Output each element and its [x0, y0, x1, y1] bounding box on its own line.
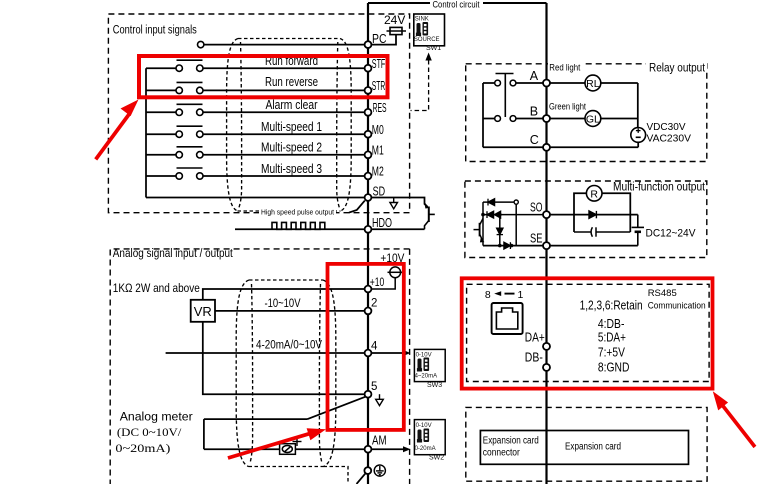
svg-text:SD: SD [373, 184, 386, 198]
transistor Q1: multi-function open collector [474, 219, 484, 242]
wire PC row [204, 44, 365, 46]
svg-text:SO: SO [530, 201, 543, 215]
svg-text:GL: GL [586, 114, 600, 126]
wire: relay left bus [482, 83, 484, 147]
svg-text:5:DA+: 5:DA+ [598, 331, 626, 345]
wire: AM to SW2 arrow [371, 448, 404, 450]
terminal M2 [365, 173, 372, 180]
wire: diagonal from terminal 5 to meter loop [308, 397, 366, 419]
wire: SO to battery [550, 214, 638, 216]
svg-text:RS485: RS485 [648, 288, 677, 299]
wire: GL to right bus [601, 118, 638, 120]
switch SW2 selector box [414, 420, 445, 455]
box: Relay output dashed border [466, 64, 707, 162]
wire: terminal 4 to SW3 arrow [371, 352, 404, 354]
diode D4 (SE row, pointing right) [504, 242, 511, 249]
lamp GL (green light) [585, 111, 601, 127]
wire: ground diagonal [357, 473, 366, 484]
ground: shield arrow symbol near SD [390, 198, 398, 209]
highlight: red box around analog terminals [328, 264, 404, 430]
switch SW1 SINK/SOURCE selector box [414, 14, 445, 46]
svg-text:Alarm clear: Alarm clear [266, 98, 318, 112]
switch: SW1 DIP icon [416, 22, 428, 36]
svg-text:RES: RES [373, 101, 387, 115]
wire: terminal B to GL [550, 118, 585, 120]
wire: HDO to output transistor emitter [371, 228, 424, 230]
shield: analog cable capsule outer [236, 280, 336, 467]
wire: RL to right bus [601, 82, 638, 84]
wire: meter loop left [203, 419, 205, 449]
svg-text:M0: M0 [372, 123, 384, 137]
relay contact A [483, 74, 516, 118]
svg-text:24V: 24V [384, 13, 405, 27]
svg-text:DA+: DA+ [525, 331, 545, 345]
svg-text:Analog signal input / output: Analog signal input / output [113, 246, 233, 260]
wire: contact B to terminal B [516, 118, 543, 120]
wire: terminal 4 row [166, 352, 365, 354]
label Relay output [646, 60, 707, 75]
wire RES row [203, 111, 365, 113]
wire: VR top to +10 [203, 289, 365, 300]
svg-text:DC12~24V: DC12~24V [646, 227, 696, 239]
wire: VR wiper to terminal 2 [215, 310, 365, 312]
terminal 5 [365, 391, 372, 398]
svg-text:-10~10V: -10~10V [265, 296, 302, 310]
switch M2 (Multi-speed 3) [146, 168, 203, 179]
node: left terminal bus line [367, 3, 369, 484]
wire: SO row inside left circuit [483, 214, 543, 216]
terminal SO [543, 211, 550, 218]
wire: relay right bus [637, 83, 639, 128]
svg-text:0~20mA): 0~20mA) [115, 441, 170, 455]
box: Multi-function output dashed border [465, 181, 707, 258]
terminal DA+ [543, 343, 550, 350]
svg-text:AM: AM [372, 434, 387, 448]
wire: snubber frame [574, 193, 630, 232]
wire: contact A to terminal A [516, 82, 543, 84]
label High speed pulse output [259, 207, 336, 217]
switch RES (Alarm clear) [146, 104, 203, 115]
svg-text:4: 4 [371, 341, 378, 353]
svg-text:B: B [530, 104, 538, 118]
svg-text:2: 2 [371, 298, 377, 310]
svg-text:VR: VR [194, 304, 212, 319]
svg-text:VAC230V: VAC230V [647, 134, 692, 145]
capacitor C1 [574, 227, 630, 236]
svg-text:STF: STF [372, 57, 386, 71]
svg-text:Analog meter: Analog meter [120, 409, 193, 423]
svg-text:Control circuit: Control circuit [433, 0, 480, 11]
wire M1 row [203, 154, 365, 156]
svg-text:4-20mA/0~10V: 4-20mA/0~10V [256, 338, 323, 352]
transistor: HDO open collector [425, 203, 435, 229]
switch SW3 selector box [414, 349, 445, 381]
svg-text:Green light: Green light [549, 102, 586, 112]
diode D5 on SO line [589, 211, 596, 218]
relay coil R circle [586, 186, 602, 202]
label: Control circuit [430, 0, 483, 11]
svg-text:(DC 0~10V/: (DC 0~10V/ [117, 425, 182, 439]
wire: meter loop top [204, 418, 308, 420]
svg-text:Expansion card: Expansion card [483, 436, 539, 447]
svg-text:8: 8 [485, 289, 491, 301]
svg-text:HDO: HDO [372, 216, 392, 230]
terminal HDO [365, 226, 372, 233]
potentiometer VR [191, 300, 215, 322]
svg-text:A: A [530, 69, 539, 83]
svg-text:4~20mA: 4~20mA [415, 374, 438, 380]
wire STR row [203, 89, 365, 91]
highlight: red arrow pointing to RS485 box [713, 391, 757, 448]
svg-text:0-10V: 0-10V [416, 352, 432, 358]
svg-text:SINK: SINK [415, 17, 429, 23]
svg-text:+10: +10 [370, 277, 385, 289]
label 8 to 1 pin order [485, 289, 524, 301]
label Expansion card connector [483, 436, 539, 459]
svg-text:STR: STR [372, 79, 386, 93]
svg-text:R: R [590, 188, 598, 200]
svg-text:Communication: Communication [648, 300, 706, 311]
svg-text:0-10V: 0-10V [416, 423, 432, 429]
terminal STR [365, 87, 372, 94]
wire: top control-circuit boundary line [368, 2, 547, 4]
label Red light [548, 61, 582, 73]
svg-text:DB-: DB- [525, 351, 543, 365]
wire HDO row [235, 228, 365, 230]
svg-text:0-20mA: 0-20mA [415, 446, 436, 452]
node: main control-circuit vertical line [545, 3, 547, 484]
svg-text:C: C [530, 133, 539, 147]
svg-text:SE: SE [530, 232, 543, 246]
svg-text:High speed pulse output: High speed pulse output [261, 207, 335, 216]
terminal SE [543, 242, 550, 249]
svg-text:Expansion card: Expansion card [565, 442, 621, 453]
diode D2 (SO row, pointing left) [487, 211, 501, 218]
wire: SD to HDO output transistor collector [371, 198, 427, 207]
ground: protective earth symbol [374, 465, 385, 476]
terminal RES [365, 109, 372, 116]
wire: resistor to PC terminal [371, 35, 396, 45]
box: expansion card solid frame [480, 431, 688, 465]
wire STF row [203, 67, 365, 69]
highlight: red box around RS485 [462, 278, 713, 388]
wire M0 row [203, 133, 365, 135]
lamp RL (red light) [585, 75, 601, 91]
wire: left circuit top row [483, 201, 514, 203]
svg-text:1,2,3,6:Retain: 1,2,3,6:Retain [580, 299, 643, 313]
svg-text:Multi-function output: Multi-function output [613, 182, 706, 194]
meter: analog meter symbol [280, 444, 296, 455]
box: Analog signal input/output dashed border [110, 249, 409, 484]
wire: shield drain to ground [324, 467, 349, 482]
box: Control input signals dashed border [108, 14, 409, 213]
terminal 4 [365, 350, 372, 357]
terminal A [543, 80, 550, 87]
switch STR (Run reverse) [146, 82, 203, 93]
wire: battery to SE [550, 245, 638, 247]
svg-text:Red light: Red light [549, 62, 580, 72]
box: RS485 dashed border [467, 284, 709, 381]
relay contact B [483, 116, 516, 122]
svg-text:Control input signals: Control input signals [113, 23, 197, 37]
svg-text:8:GND: 8:GND [598, 361, 630, 375]
svg-text:4:DB-: 4:DB- [598, 317, 625, 331]
svg-text:SOURCE: SOURCE [414, 37, 440, 43]
svg-text:1KΩ 2W and above: 1KΩ 2W and above [113, 281, 200, 295]
highlight: red box around STF/STR [139, 56, 388, 97]
svg-text:1: 1 [518, 289, 524, 301]
wire: terminal C to source [550, 146, 638, 148]
wire: AM row [204, 448, 365, 450]
terminal B [543, 115, 550, 122]
wire: terminal A to RL [550, 82, 585, 84]
diode D1 (top, pointing left) [488, 199, 495, 206]
terminal PC [365, 41, 372, 48]
terminal ground [364, 467, 371, 474]
svg-text:connector: connector [483, 448, 521, 459]
terminal AM [365, 446, 372, 453]
svg-text:RL: RL [586, 78, 600, 90]
node: PC row open circle (left end) [198, 41, 204, 47]
shield: analog cable capsule inner lines [250, 284, 322, 463]
wire: right vertical of left circuit [515, 204, 517, 245]
wire: source to C row [637, 142, 639, 147]
highlight: red arrow pointing to STF/STR box [94, 100, 138, 161]
resistor: PC 24V internal resistor [387, 30, 407, 32]
wire: C row [483, 146, 543, 148]
svg-text:Multi-speed 2: Multi-speed 2 [261, 141, 322, 155]
highlight: red arrow pointing to analog terminal box [227, 428, 326, 460]
terminal M0 [365, 131, 372, 138]
battery B1 DC12~24V [632, 215, 644, 246]
switch M1 (Multi-speed 2) [146, 147, 203, 158]
terminal DB- [543, 364, 550, 371]
box: expansion card dashed border [466, 407, 707, 481]
switch: SW3 DIP icon [417, 358, 429, 372]
node: open dot top right [514, 200, 518, 204]
power: +10V source symbol [371, 267, 403, 289]
terminal STF [365, 65, 372, 72]
terminal M1 [365, 151, 372, 158]
switch: SW2 DIP icon [417, 429, 429, 443]
svg-text:Run reverse: Run reverse [265, 75, 318, 89]
svg-text:M2: M2 [372, 165, 384, 179]
switch STF (Run forward) [146, 60, 203, 71]
wire: middle vertical with zener [499, 215, 501, 246]
wire: left circuit vertical bus [482, 202, 484, 246]
svg-text:M1: M1 [372, 143, 384, 157]
svg-text:Relay output: Relay output [649, 61, 705, 75]
source: VDC30V/VAC230V supply [631, 127, 646, 142]
wire: SW1 dashed pointer [411, 60, 429, 111]
svg-text:Multi-speed 3: Multi-speed 3 [261, 162, 322, 176]
svg-text:VDC30V: VDC30V [647, 122, 686, 133]
connector: RJ45 jack [492, 303, 523, 334]
wire: SE row [483, 245, 543, 247]
diode D3 zener [497, 228, 503, 234]
terminal +10 [365, 286, 372, 293]
svg-text:5: 5 [371, 381, 377, 393]
svg-text:SW3: SW3 [427, 382, 442, 389]
shield: control cable capsule inner lines [239, 42, 340, 208]
svg-text:SW2: SW2 [429, 455, 444, 462]
wire: VR bottom to terminal 5 [203, 322, 365, 394]
node: junction dots left circuit [481, 213, 513, 248]
ground: shield arrow symbol below terminal 5 [376, 394, 384, 405]
terminal C [543, 144, 550, 151]
label Multi-function output [612, 182, 706, 194]
terminal SD [365, 194, 372, 201]
svg-text:SW1: SW1 [426, 45, 441, 52]
shield: control cable capsule outer [227, 39, 352, 212]
wire: shield drain to SD [349, 201, 365, 213]
waveform: HDO pulse train [272, 222, 325, 229]
svg-text:Multi-speed 1: Multi-speed 1 [261, 120, 322, 134]
wire: left switch bus [145, 68, 147, 197]
terminal 2 [365, 308, 372, 315]
wire M2 row [203, 175, 365, 177]
svg-text:7:+5V: 7:+5V [598, 346, 626, 360]
wire SD row [146, 197, 365, 199]
switch M0 (Multi-speed 1) [146, 126, 203, 137]
